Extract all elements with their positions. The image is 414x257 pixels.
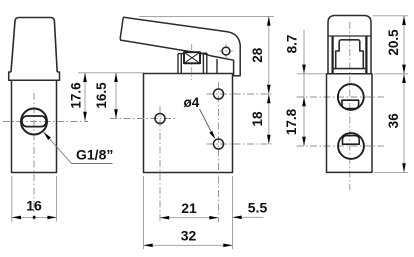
pivot pin crosshair <box>219 44 234 59</box>
dimension 20.5 and 36 line <box>403 16 405 173</box>
left view flange <box>9 72 60 80</box>
right view cap housing fill <box>328 16 371 74</box>
left view cap (tapered bonnet) <box>11 18 57 73</box>
dimension 8.7 and 17.8 <box>297 73 327 75</box>
left view screw slot <box>22 116 46 127</box>
right view vertical centerline <box>349 22 351 190</box>
svg-text:28: 28 <box>250 47 265 63</box>
svg-text:18: 18 <box>250 111 265 127</box>
left view screw circle <box>21 109 47 135</box>
left view horizontal centerline <box>3 121 88 123</box>
lower port slot <box>343 136 360 145</box>
dimension 28 and 18 line <box>268 16 270 144</box>
svg-text:17.6: 17.6 <box>69 82 84 109</box>
right view body fill <box>327 74 373 173</box>
lever top extension line <box>139 15 274 17</box>
leader for diameter 4 <box>200 109 213 134</box>
collar under lever <box>178 53 207 74</box>
hole centerlines middle view <box>159 106 161 222</box>
svg-text:8.7: 8.7 <box>285 35 300 54</box>
cap inner line <box>328 35 371 37</box>
lever (manual actuator handle) <box>120 17 240 76</box>
dimension 32 <box>144 244 233 246</box>
svg-text:16: 16 <box>26 197 42 213</box>
svg-text:17.8: 17.8 <box>284 108 299 135</box>
dimension 5.5 <box>233 216 264 218</box>
svg-text:32: 32 <box>181 228 197 244</box>
right view cap housing <box>328 16 371 74</box>
leader G1/8 <box>44 132 113 164</box>
lever bracket inner edge <box>216 59 218 74</box>
upper port slot <box>342 100 359 108</box>
plunger centerline <box>191 44 193 80</box>
svg-text:5.5: 5.5 <box>248 200 268 216</box>
dimension 17.6 <box>78 72 144 74</box>
svg-text:36: 36 <box>386 113 401 129</box>
dimension 16.5 <box>115 73 117 119</box>
svg-text:21: 21 <box>181 200 197 216</box>
right view body <box>327 74 373 173</box>
dimension 20.5 and 36 extension lines <box>373 16 408 173</box>
dimension 16 extension lines <box>12 176 57 222</box>
middle view body <box>144 74 233 173</box>
mounting hole upper right <box>214 89 224 99</box>
left view vertical centerline <box>33 93 35 220</box>
plunger stepped stack <box>333 40 367 69</box>
dimension 32 extension lines <box>144 176 233 249</box>
right view lower port <box>338 133 364 159</box>
mounting hole left <box>155 114 165 124</box>
right view port centerline upper <box>297 96 385 98</box>
right view port centerline lower <box>297 145 385 147</box>
plunger X-box <box>184 52 200 63</box>
left view body <box>12 80 57 172</box>
dimension 16 line <box>12 216 57 218</box>
pivot pin <box>222 47 230 55</box>
dimension 21 <box>160 217 219 219</box>
svg-text:20.5: 20.5 <box>386 29 401 56</box>
mounting hole lower right <box>214 139 224 149</box>
cap inner walls <box>333 36 367 73</box>
svg-text:G1/8”: G1/8” <box>76 147 113 163</box>
right view upper port <box>338 84 364 110</box>
svg-text:ø4: ø4 <box>184 95 200 110</box>
svg-text:16.5: 16.5 <box>94 82 109 109</box>
